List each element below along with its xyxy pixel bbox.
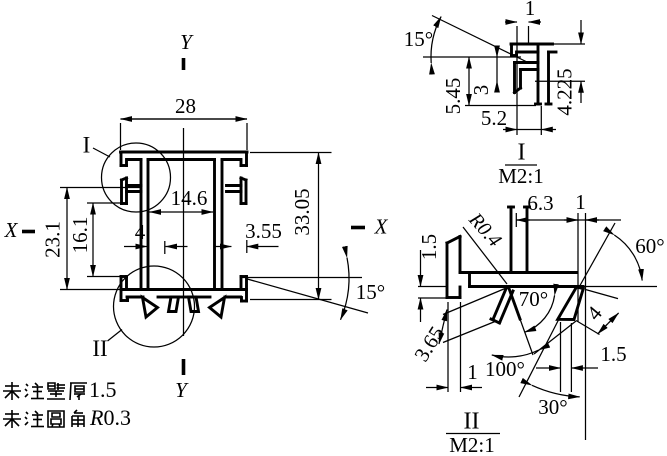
svg-text:70°: 70°: [519, 287, 548, 311]
svg-text:16.1: 16.1: [68, 217, 92, 254]
svg-text:5.2: 5.2: [481, 106, 507, 130]
dimension 28: [121, 94, 248, 150]
svg-text:R0.3: R0.3: [89, 405, 131, 430]
svg-text:3.55: 3.55: [245, 219, 282, 243]
bottom-left lip: [121, 277, 128, 301]
detail II angle 60: [578, 223, 665, 289]
svg-text:33.05: 33.05: [290, 188, 314, 235]
dimension 23.1: [40, 188, 140, 290]
svg-text:1: 1: [525, 0, 536, 20]
svg-text:II: II: [92, 336, 107, 361]
detail I lip: [512, 44, 517, 56]
svg-text:4.225: 4.225: [552, 68, 576, 115]
note char zhu: [25, 383, 44, 399]
svg-text:3: 3: [469, 85, 493, 96]
detail I dim 5.45: [441, 57, 536, 114]
right hook: [227, 178, 247, 204]
svg-text:28: 28: [175, 94, 196, 118]
svg-text:I: I: [518, 140, 526, 166]
detail circle I: [102, 143, 171, 212]
detail I dim 4.225: [535, 20, 585, 116]
svg-text:1.5: 1.5: [417, 234, 441, 260]
dimension 16.1: [68, 203, 122, 277]
svg-text:M2:1: M2:1: [449, 433, 495, 456]
detail II wall: [509, 207, 530, 273]
svg-text:15°: 15°: [404, 27, 433, 51]
profile top-left lip: [121, 152, 127, 166]
svg-text:30°: 30°: [538, 395, 567, 419]
detail I flange: [511, 44, 556, 52]
detail II left tooth: [491, 288, 533, 356]
detail II dim 3.65: [409, 289, 505, 366]
svg-text:1.5: 1.5: [600, 342, 626, 366]
svg-text:1: 1: [467, 360, 478, 384]
label II leader: [108, 330, 123, 342]
tooth 2: [169, 297, 179, 312]
profile top flange: [121, 152, 248, 160]
detail II dim 1 bottom: [426, 302, 482, 392]
detail I dim 1: [505, 0, 541, 135]
note char bi: [47, 383, 65, 399]
bottom-right lip: [241, 277, 247, 302]
svg-text:1.5: 1.5: [89, 377, 117, 402]
svg-text:60°: 60°: [635, 234, 664, 258]
detail II dim 1.5 right: [536, 322, 627, 392]
detail II flange: [460, 273, 583, 287]
dimension 3.55: [214, 219, 282, 253]
angle 15 main: [240, 258, 385, 320]
detail II right tooth: [558, 287, 584, 320]
profile left wall: [141, 160, 148, 290]
svg-text:100°: 100°: [485, 357, 525, 381]
bottom flange: [121, 290, 247, 298]
detail circle II: [114, 266, 195, 347]
svg-text:M2:1: M2:1: [498, 164, 544, 188]
note char jiao: [72, 410, 84, 427]
left hook: [122, 178, 142, 204]
note char wei: [3, 382, 21, 400]
tooth 3: [189, 297, 199, 312]
dimension 4: [124, 220, 188, 254]
Y axis centerline: [182, 58, 186, 375]
X axis dashes: [22, 228, 365, 232]
svg-text:X: X: [4, 218, 19, 242]
tooth 1: [143, 298, 158, 318]
svg-text:I: I: [83, 132, 91, 157]
svg-text:14.6: 14.6: [171, 186, 208, 210]
detail I hook: [515, 63, 539, 93]
detail II leader R0.4: [463, 208, 507, 284]
note char wei2: [3, 410, 21, 428]
detail I angle 15: [404, 16, 527, 64]
detail II label: [446, 409, 500, 456]
note char zhu2: [25, 411, 44, 427]
dimension 14.6: [150, 186, 214, 212]
note char hou: [70, 383, 87, 400]
detail II angle 70: [519, 287, 555, 332]
svg-text:23.1: 23.1: [40, 221, 64, 258]
svg-text:4: 4: [135, 220, 146, 244]
detail II right tooth edge extension: [534, 321, 576, 354]
profile right wall: [215, 160, 223, 290]
tooth 4: [210, 298, 225, 318]
svg-text:X: X: [374, 214, 389, 238]
svg-text:6.3: 6.3: [527, 191, 553, 215]
profile top-right lip: [241, 152, 247, 166]
svg-text:15°: 15°: [356, 280, 385, 304]
detail II lip: [447, 237, 460, 298]
detail II dim 1.5 left: [417, 234, 447, 322]
svg-text:5.45: 5.45: [441, 78, 465, 115]
detail II dims 6.3 and 1 top: [516, 190, 621, 440]
svg-text:1: 1: [575, 190, 586, 214]
label I leader: [93, 148, 110, 157]
detail II dim 4: [576, 289, 619, 334]
detail II angle 100: [485, 350, 539, 381]
svg-text:II: II: [464, 409, 480, 435]
detail II angle 30: [519, 315, 580, 419]
detail I dim 5.2: [481, 106, 556, 135]
note char yuan: [48, 411, 64, 427]
detail I label: [498, 140, 544, 188]
dimension 33.05: [250, 153, 332, 300]
detail I wall: [536, 44, 552, 104]
detail I dim 3: [469, 46, 497, 95]
